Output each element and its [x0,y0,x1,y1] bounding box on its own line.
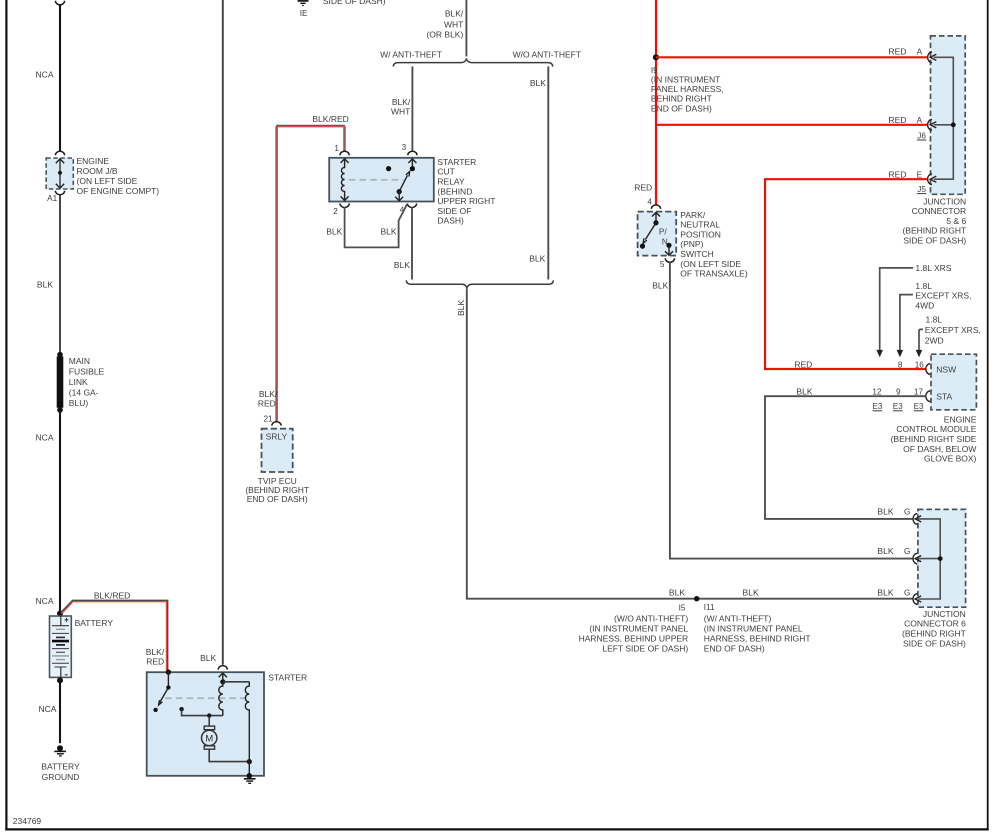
svg-text:STARTER: STARTER [268,673,307,683]
svg-text:(W/O ANTI-THEFT): (W/O ANTI-THEFT) [614,614,688,624]
wire BLK/RED battery to starter (black stroke) [36,591,168,671]
option arrow 1.8L EXCEPT XRS, 2WD [916,314,981,357]
TVIP ECU (SRLY) [245,429,309,504]
svg-text:SIDE OF DASH): SIDE OF DASH) [903,236,966,246]
wire BLK/WHT (OR BLK) from top [426,0,466,56]
svg-text:LEFT SIDE OF DASH): LEFT SIDE OF DASH) [602,643,688,653]
svg-text:1.8L: 1.8L [915,281,932,291]
battery ground [41,745,80,782]
svg-text:OF DASH, BELOW: OF DASH, BELOW [903,444,976,454]
svg-text:NEUTRAL: NEUTRAL [680,220,720,230]
svg-text:4WD: 4WD [915,301,934,311]
svg-text:RED: RED [889,115,907,125]
svg-text:ENGINE: ENGINE [77,156,110,166]
svg-text:5: 5 [660,260,665,269]
svg-text:BLK: BLK [530,78,546,88]
svg-text:BLK: BLK [529,253,545,263]
wire BLK/RED from SRLY to relay pin 1 [258,114,349,422]
svg-text:BLU): BLU) [69,398,89,408]
svg-text:DASH): DASH) [437,216,464,226]
svg-text:WHT: WHT [444,20,463,30]
svg-text:P/: P/ [659,227,667,236]
svg-text:MAIN: MAIN [69,356,90,366]
svg-text:JUNCTION: JUNCTION [923,609,966,619]
svg-text:(BEHIND RIGHT SIDE: (BEHIND RIGHT SIDE [891,434,977,444]
junction 6 pin G terminal (middle) [913,553,921,564]
svg-text:RELAY: RELAY [437,177,465,187]
svg-text:A1: A1 [47,194,57,203]
svg-text:NCA: NCA [36,432,54,442]
junction 5&6 pin A terminal (top) [928,52,937,63]
svg-text:G: G [904,588,910,597]
svg-text:W/O ANTI-THEFT: W/O ANTI-THEFT [513,50,581,60]
svg-text:LINK: LINK [69,377,88,387]
svg-text:HARNESS, BEHIND UPPER: HARNESS, BEHIND UPPER [579,634,689,644]
svg-text:(ON LEFT SIDE: (ON LEFT SIDE [680,259,741,269]
svg-text:1.8L XRS: 1.8L XRS [915,263,951,273]
svg-text:BLK/: BLK/ [259,389,278,399]
svg-text:(OR BLK): (OR BLK) [426,30,463,40]
svg-text:BLK/: BLK/ [146,647,165,657]
svg-text:17: 17 [914,388,924,397]
svg-text:J5: J5 [917,185,926,194]
svg-text:BLK/RED: BLK/RED [94,591,130,601]
svg-text:BLK: BLK [37,279,53,289]
svg-text:BLK/RED: BLK/RED [312,114,348,124]
wire RED to junction connector pin A (top) [656,47,928,58]
svg-text:GLOVE BOX): GLOVE BOX) [924,454,977,464]
relay pin 1 connector cup [340,151,349,155]
svg-text:BLK: BLK [456,300,466,316]
svg-text:G: G [904,547,910,556]
svg-text:E3: E3 [872,402,882,411]
svg-text:E3: E3 [914,402,924,411]
svg-text:OF TRANSAXLE): OF TRANSAXLE) [680,269,748,279]
svg-text:BLK/: BLK/ [392,97,411,107]
svg-text:(14 GA-: (14 GA- [69,387,99,397]
svg-text:BATTERY: BATTERY [41,762,80,772]
svg-text:SRLY: SRLY [266,432,288,442]
svg-text:16: 16 [915,360,925,369]
svg-text:E3: E3 [893,402,903,411]
svg-text:CUT: CUT [437,167,454,177]
svg-text:BLK: BLK [669,587,685,597]
svg-text:I11: I11 [704,603,715,612]
junction 5&6 pin A terminal (middle) [928,120,937,131]
starter box [147,672,307,776]
wire BLK relay pin4 down to merge brace [394,207,412,279]
svg-text:HARNESS, BEHIND RIGHT: HARNESS, BEHIND RIGHT [704,634,811,644]
svg-text:JUNCTION: JUNCTION [923,196,966,206]
svg-text:(ON LEFT SIDE: (ON LEFT SIDE [77,176,138,186]
svg-text:RED: RED [889,47,907,57]
ground IE [298,1,309,18]
SRLY pin 21 cup [263,415,281,426]
svg-text:NCA: NCA [36,69,54,79]
relay coil [341,159,349,201]
wire BLK/WHT anti-theft branch to relay pin 3 [391,66,412,151]
svg-text:BLK: BLK [796,386,812,396]
svg-text:(IN INSTRUMENT PANEL: (IN INSTRUMENT PANEL [589,624,688,634]
svg-text:ENGINE: ENGINE [944,414,977,424]
relay switch [386,158,416,201]
node I9 splice [651,54,724,113]
svg-text:12: 12 [872,388,882,397]
junction 5&6 pin E terminal (bottom) [928,174,937,185]
svg-text:STA: STA [936,392,952,402]
relay pin 2 cup and label [333,204,349,216]
svg-text:NCA: NCA [38,704,56,714]
svg-text:STARTER: STARTER [437,157,476,167]
starter internal dashed link [165,697,247,699]
wire NCA fusible link to battery [36,410,60,614]
svg-text:8: 8 [898,360,903,369]
merge brace [406,280,553,288]
svg-text:W/ ANTI-THEFT: W/ ANTI-THEFT [380,50,442,60]
svg-text:1: 1 [334,144,339,153]
svg-text:J6: J6 [917,131,926,140]
starter cut relay [329,157,495,226]
PNP switch pin 5 cup [660,258,675,269]
svg-text:A: A [917,48,923,57]
svg-text:E: E [917,171,923,180]
svg-text:1.8L: 1.8L [926,314,943,324]
svg-text:RED: RED [634,182,652,192]
main fusible link (14 GA-BLU) [57,352,105,413]
ECM pin NSW terminal [926,364,930,375]
park/neutral position (PNP) switch [638,210,748,279]
svg-text:SIDE OF: SIDE OF [437,206,471,216]
svg-text:PARK/: PARK/ [680,210,706,220]
svg-text:SIDE OF DASH): SIDE OF DASH) [323,0,386,6]
wire BLK ECM STA to junction connector 6 [765,386,926,519]
svg-text:OF ENGINE COMPT): OF ENGINE COMPT) [77,186,160,196]
engine room J/B connector cup (top) [55,151,64,155]
svg-text:(BEHIND: (BEHIND [437,186,472,196]
wire BLK w/o anti-theft branch [529,66,548,279]
svg-text:PANEL HARNESS,: PANEL HARNESS, [651,84,724,94]
svg-text:BLK: BLK [326,226,342,236]
svg-text:NSW: NSW [936,365,956,375]
wire BLK PNP pin 5 to junction connector 6 [652,262,913,559]
svg-text:BLK: BLK [394,260,410,270]
svg-text:(BEHIND RIGHT: (BEHIND RIGHT [902,226,966,236]
battery [50,611,114,684]
svg-text:BLK: BLK [743,587,759,597]
junction 6 pin G terminal (bottom) [913,594,921,605]
svg-text:CONNECTOR 6: CONNECTOR 6 [904,619,966,629]
wire BLK from A1 to fusible link [37,194,60,355]
node A1 (J/B bottom connector cup) [47,191,64,203]
engine room J/B [46,156,159,196]
svg-text:3: 3 [402,143,407,152]
svg-text:UPPER RIGHT: UPPER RIGHT [437,196,495,206]
svg-text:(W/ ANTI-THEFT): (W/ ANTI-THEFT) [704,614,772,624]
svg-text:RED: RED [146,657,164,667]
wire NCA battery to ground [38,680,60,743]
svg-text:EXCEPT XRS,: EXCEPT XRS, [925,325,981,335]
svg-text:END OF DASH): END OF DASH) [704,643,765,653]
svg-text:BLK: BLK [877,506,893,516]
ECM pin STA terminal [926,391,930,402]
wire RED to junction connector pin A (J6) [656,115,928,140]
svg-text:END OF DASH): END OF DASH) [247,494,308,504]
svg-text:(IN INSTRUMENT: (IN INSTRUMENT [651,75,720,85]
svg-text:BATTERY: BATTERY [75,618,114,628]
svg-text:BEHIND RIGHT: BEHIND RIGHT [651,94,712,104]
wire RED main feed from top [655,0,657,205]
option arrow 1.8L XRS [876,263,951,357]
svg-text:FUSIBLE: FUSIBLE [69,366,105,376]
svg-text:IE: IE [300,9,308,18]
svg-text:NCA: NCA [36,596,54,606]
svg-text:BLK: BLK [381,226,397,236]
svg-text:BLK: BLK [877,587,893,597]
option arrow 1.8L EXCEPT XRS, 4WD [897,281,972,357]
engine control module [891,354,977,463]
svg-text:(IN INSTRUMENT PANEL: (IN INSTRUMENT PANEL [704,624,803,634]
label BLK and G for bottom junction row [877,587,910,597]
starter connector cup [218,666,227,670]
svg-text:CONTROL MODULE: CONTROL MODULE [896,424,976,434]
starter solenoid hold-in coil (right) [245,682,249,762]
svg-text:ROOM J/B: ROOM J/B [77,166,118,176]
junction connector 6 [902,509,966,648]
svg-text:SIDE OF DASH): SIDE OF DASH) [903,638,966,648]
svg-text:END OF DASH): END OF DASH) [651,103,712,113]
svg-text:234769: 234769 [13,816,42,826]
svg-text:G: G [904,507,910,516]
svg-text:WHT: WHT [391,107,410,117]
relay pin 4 cup and label [400,143,417,215]
svg-text:M: M [205,734,213,745]
svg-text:EXCEPT XRS,: EXCEPT XRS, [915,291,971,301]
PNP switch pin 4 cup [634,182,660,209]
wire BLK from top to starter [200,0,223,665]
svg-text:BLK: BLK [652,280,668,290]
junction connector 5 & 6 [902,36,966,246]
svg-text:5 & 6: 5 & 6 [946,216,966,226]
svg-text:BLK/: BLK/ [445,9,464,19]
wire BLK jumper pin2 to pin4 [326,204,407,247]
svg-text:CONNECTOR: CONNECTOR [912,206,967,216]
wire BLK center run to junction connector 6 [456,288,913,598]
svg-text:21: 21 [263,415,273,424]
split brace w/ and w/o anti-theft [380,50,581,67]
svg-text:4: 4 [647,198,652,207]
starter ground [244,762,256,784]
starter motor M [202,716,252,765]
junction 6 pin G terminal (top) [913,514,921,525]
svg-text:BLK: BLK [877,546,893,556]
svg-text:2WD: 2WD [925,335,944,345]
svg-text:RED: RED [794,359,812,369]
svg-text:9: 9 [896,388,901,397]
starter solenoid pull-in coil (left) [219,673,250,716]
svg-text:A: A [917,116,923,125]
ECM connector E3 labels [872,402,924,411]
wire NCA battery feed from top [36,1,65,151]
svg-text:2: 2 [333,207,338,216]
svg-text:GROUND: GROUND [42,772,80,782]
svg-text:RED: RED [889,170,907,180]
starter switch [153,669,222,717]
svg-text:RED: RED [258,399,276,409]
node I5 / I11 splice [579,596,811,653]
relay pin 3 connector cup [408,151,417,155]
ECM pin numbers 8 and 16 [898,360,924,369]
svg-text:N: N [662,237,668,246]
svg-text:(PNP): (PNP) [680,239,703,249]
svg-text:SWITCH: SWITCH [680,249,714,259]
svg-text:POSITION: POSITION [680,229,721,239]
svg-text:(BEHIND RIGHT: (BEHIND RIGHT [902,629,966,639]
svg-text:I5: I5 [679,603,686,612]
svg-text:BLK: BLK [200,653,216,663]
wire RED junction pin E to ECM NSW [765,170,928,370]
